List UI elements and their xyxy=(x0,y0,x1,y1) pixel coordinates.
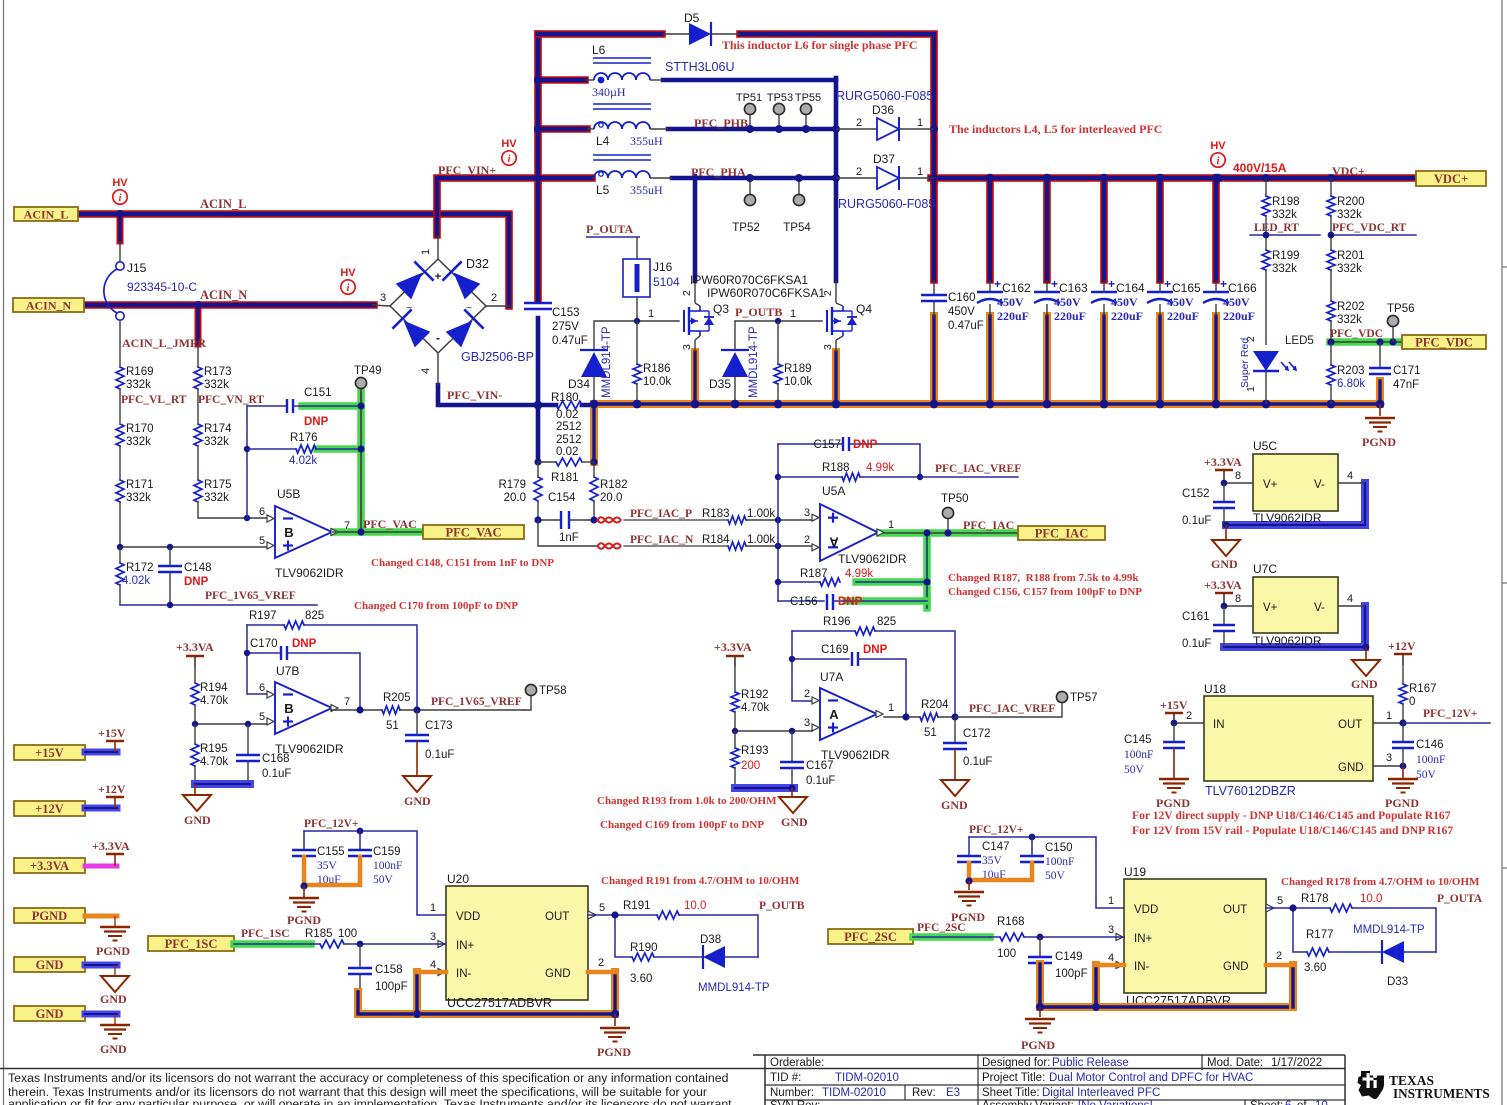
svg-text:OUT: OUT xyxy=(1223,904,1247,916)
svg-text:R195: R195 xyxy=(200,743,228,755)
svg-text:INSTRUMENTS: INSTRUMENTS xyxy=(1393,1086,1490,1101)
svg-text:8: 8 xyxy=(1235,593,1241,605)
resistor R171 xyxy=(116,480,124,502)
svg-text:R189: R189 xyxy=(784,363,812,375)
svg-text:R204: R204 xyxy=(921,699,949,711)
svg-text:200: 200 xyxy=(741,760,760,772)
svg-text:PGND: PGND xyxy=(96,944,130,958)
wire C153 column lower xyxy=(536,318,541,407)
svg-text:IN-: IN- xyxy=(456,968,472,980)
twisted pair PFC_IAC_P xyxy=(597,517,621,522)
sheet border right xyxy=(1501,0,1503,1105)
svg-text:GND: GND xyxy=(184,813,211,827)
svg-text:GND: GND xyxy=(1338,762,1364,774)
svg-text:PFC_12V+: PFC_12V+ xyxy=(1423,708,1477,720)
diode D5 xyxy=(662,33,689,35)
svg-text:PFC_IAC_N: PFC_IAC_N xyxy=(630,534,694,546)
svg-text:4: 4 xyxy=(430,959,436,971)
svg-text:0.1uF: 0.1uF xyxy=(262,768,291,780)
svg-text:220uF: 220uF xyxy=(1054,309,1086,323)
svg-text:PFC_IAC_VREF: PFC_IAC_VREF xyxy=(969,703,1055,715)
svg-text:MMDL914-TP: MMDL914-TP xyxy=(698,982,770,994)
wire PFC_VIN+ rail xyxy=(437,178,592,235)
svg-text:PFC_IAC: PFC_IAC xyxy=(963,518,1014,532)
svg-text:GND: GND xyxy=(545,968,571,980)
svg-text:Changed C148, C151 from 1nF to: Changed C148, C151 from 1nF to DNP xyxy=(371,557,554,569)
svg-text:Sheet Title:: Sheet Title: xyxy=(982,1087,1040,1099)
svg-text:50V: 50V xyxy=(1045,870,1066,882)
svg-text:275V: 275V xyxy=(552,321,579,333)
svg-text:C155: C155 xyxy=(317,846,345,858)
svg-text:MMDL914-TP: MMDL914-TP xyxy=(601,326,613,398)
svg-text:U7A: U7A xyxy=(820,670,843,684)
svg-text:100: 100 xyxy=(338,928,357,940)
testpoint TP53 xyxy=(778,115,780,129)
wire PFC_12V+ U20 xyxy=(304,831,446,915)
svg-text:TP51: TP51 xyxy=(736,92,762,104)
svg-text:R172: R172 xyxy=(126,562,154,574)
svg-text:PFC_IAC: PFC_IAC xyxy=(1035,527,1088,541)
svg-text:1/17/2022: 1/17/2022 xyxy=(1271,1057,1322,1069)
wire U5B plus input xyxy=(120,546,267,548)
svg-text:DNP: DNP xyxy=(838,596,863,608)
svg-text:MMDL914-TP: MMDL914-TP xyxy=(1353,924,1425,936)
svg-text:2: 2 xyxy=(804,534,810,546)
svg-text:C165: C165 xyxy=(1172,281,1201,295)
svg-text:D37: D37 xyxy=(873,152,895,166)
svg-text:C145: C145 xyxy=(1124,734,1152,746)
svg-text:PFC_VDC_RT: PFC_VDC_RT xyxy=(1332,222,1407,234)
wire orange U20 gnd bus xyxy=(358,992,615,1014)
svg-text:100: 100 xyxy=(997,948,1016,960)
svg-text:ACIN_L_JMPR: ACIN_L_JMPR xyxy=(122,336,206,350)
svg-text:PFC_VAC: PFC_VAC xyxy=(363,517,417,531)
svg-text:450V: 450V xyxy=(1054,295,1081,309)
svg-text:E3: E3 xyxy=(946,1087,960,1099)
svg-text:PFC_VIN+: PFC_VIN+ xyxy=(438,163,496,177)
junctions top buses xyxy=(534,76,542,84)
svg-text:220uF: 220uF xyxy=(1111,309,1143,323)
svg-text:LED_RT: LED_RT xyxy=(1254,222,1299,234)
svg-text:U5C: U5C xyxy=(1253,439,1277,453)
svg-text:C154: C154 xyxy=(548,492,576,504)
wire U5A feedback vertical xyxy=(777,444,779,601)
svg-text:HV: HV xyxy=(1210,140,1226,152)
svg-text:2: 2 xyxy=(822,290,834,296)
capacitor C170 loop xyxy=(247,652,280,654)
svg-text:~: ~ xyxy=(406,303,412,314)
svg-text:+: + xyxy=(994,277,1001,291)
ground GND C172 xyxy=(941,780,969,796)
svg-text:Super Red: Super Red xyxy=(1239,338,1251,388)
capacitor C146 xyxy=(1402,723,1404,742)
svg-text:Changed R178 from 4.7/OHM to 1: Changed R178 from 4.7/OHM to 10/OHM xyxy=(1281,876,1480,888)
port +3.3VA xyxy=(14,858,85,873)
svg-text:10: 10 xyxy=(1315,1100,1328,1105)
svg-text:TIDM-02010: TIDM-02010 xyxy=(835,1072,899,1084)
wire top rail after D5 to VDC corner xyxy=(740,34,934,181)
wire PFC_1V65_VREF stub xyxy=(120,604,317,606)
svg-text:TP57: TP57 xyxy=(1070,692,1098,704)
svg-text:Changed R187, R188 from 7.5k: Changed R187, R188 from 7.5k to 4.99k xyxy=(948,572,1139,584)
svg-text:R198: R198 xyxy=(1272,196,1300,208)
wire Q4 gate row xyxy=(735,320,822,322)
svg-text:50V: 50V xyxy=(1124,764,1145,776)
svg-text:C150: C150 xyxy=(1045,842,1073,854)
svg-text:IPW60R070C6FKSA1: IPW60R070C6FKSA1 xyxy=(690,273,808,287)
op-amp U7A xyxy=(820,688,877,740)
svg-text:DNP: DNP xyxy=(863,644,888,656)
svg-text:2: 2 xyxy=(856,166,862,178)
svg-text:L5: L5 xyxy=(596,183,610,197)
resistor R190 xyxy=(632,953,654,961)
svg-text:R188: R188 xyxy=(822,462,850,474)
wire L6 feed stub xyxy=(538,76,585,84)
svg-text:20.0: 20.0 xyxy=(600,492,622,504)
svg-text:R176: R176 xyxy=(290,432,318,444)
svg-text:1: 1 xyxy=(648,308,654,320)
svg-text:D33: D33 xyxy=(1387,976,1408,988)
svg-text:C146: C146 xyxy=(1416,739,1444,751)
svg-text:Changed C170 from 100pF to DNP: Changed C170 from 100pF to DNP xyxy=(354,600,518,612)
svg-text:+3.3VA: +3.3VA xyxy=(1204,455,1242,469)
diode D38 xyxy=(702,945,704,969)
svg-text:332k: 332k xyxy=(204,379,229,391)
wire cap bank columns red xyxy=(930,178,938,280)
svg-text:1: 1 xyxy=(917,166,923,178)
junctions power bus xyxy=(590,400,599,409)
svg-text:R183: R183 xyxy=(702,508,730,520)
svg-text:4.70k: 4.70k xyxy=(200,756,228,768)
svg-text:100nF: 100nF xyxy=(1124,749,1153,761)
ground GND U7A xyxy=(791,788,793,797)
svg-text:Public Release: Public Release xyxy=(1052,1057,1129,1069)
svg-text:332k: 332k xyxy=(1337,314,1362,326)
resistor R195 xyxy=(191,744,199,766)
svg-text:Changed R191 from 4.7/OHM to 1: Changed R191 from 4.7/OHM to 10/OHM xyxy=(601,875,800,887)
svg-text:HV: HV xyxy=(340,267,356,279)
svg-text:PGND: PGND xyxy=(32,909,67,923)
testpoint TP49 xyxy=(360,389,362,406)
svg-text:A: A xyxy=(829,707,839,722)
diode D34 xyxy=(593,321,595,350)
svg-text:GBJ2506-BP: GBJ2506-BP xyxy=(461,350,534,364)
svg-text:Changed C169 from 100pF to DNP: Changed C169 from 100pF to DNP xyxy=(600,819,764,831)
svg-text:51: 51 xyxy=(924,727,937,739)
svg-text:0.02: 0.02 xyxy=(556,409,578,421)
diode D33 xyxy=(1381,940,1383,964)
svg-text:100pF: 100pF xyxy=(375,981,408,993)
resistor R181 xyxy=(538,461,556,463)
svg-text:D34: D34 xyxy=(568,377,590,391)
svg-text:R167: R167 xyxy=(1409,683,1437,695)
svg-text:3: 3 xyxy=(430,931,436,943)
svg-text:2: 2 xyxy=(804,688,810,700)
svg-text:R190: R190 xyxy=(630,942,658,954)
svg-text:PFC_1SC: PFC_1SC xyxy=(241,928,290,940)
testpoint TP52 xyxy=(749,178,751,194)
svg-text:MMDL914-TP: MMDL914-TP xyxy=(748,326,760,398)
svg-text:C163: C163 xyxy=(1059,281,1088,295)
wire U18 out xyxy=(1373,722,1403,724)
svg-text:3: 3 xyxy=(681,344,693,350)
jumper J15 xyxy=(119,241,121,262)
svg-text:35V: 35V xyxy=(982,855,1003,867)
ground GND U7C xyxy=(1365,647,1367,660)
svg-text:For 12V from 15V rail - Popula: For 12V from 15V rail - Populate U18/C14… xyxy=(1132,824,1453,837)
svg-text:PFC_1SC: PFC_1SC xyxy=(165,937,218,951)
svg-text:0: 0 xyxy=(1409,696,1415,708)
svg-text:B: B xyxy=(284,525,293,540)
wire C151 R176 vertical xyxy=(246,406,248,518)
resistor R169 xyxy=(116,367,124,389)
svg-text:GND: GND xyxy=(941,798,968,812)
svg-text:GND: GND xyxy=(36,958,64,972)
svg-text:IN-: IN- xyxy=(1134,961,1150,973)
label PFC_IAC_VREF xyxy=(920,476,1018,478)
svg-text:For 12V direct supply - DNP U1: For 12V direct supply - DNP U18/C146/C14… xyxy=(1132,809,1451,822)
svg-text:TP54: TP54 xyxy=(783,222,811,234)
resistor R176 xyxy=(247,448,296,450)
bridge rectifier D32 xyxy=(390,259,486,353)
svg-text:100pF: 100pF xyxy=(1055,968,1088,980)
wire C171 column orange xyxy=(1376,381,1384,404)
wire PFC_PHB bus xyxy=(668,127,836,132)
svg-text:VDD: VDD xyxy=(1134,904,1158,916)
svg-text:400V/15A: 400V/15A xyxy=(1233,161,1287,175)
svg-text:2: 2 xyxy=(1276,950,1282,962)
svg-text:C159: C159 xyxy=(373,846,401,858)
svg-text:-: - xyxy=(436,331,440,345)
testpoint TP58 xyxy=(524,696,531,710)
svg-text:IN+: IN+ xyxy=(1134,933,1153,945)
svg-text:2: 2 xyxy=(598,957,604,969)
resistor R170 xyxy=(116,424,124,446)
svg-text:J16: J16 xyxy=(653,260,673,274)
svg-text:Q4: Q4 xyxy=(856,302,872,316)
svg-text:+15V: +15V xyxy=(35,746,64,760)
svg-text:PFC_12V+: PFC_12V+ xyxy=(969,824,1023,836)
svg-text:R193: R193 xyxy=(741,745,769,757)
svg-text:GND: GND xyxy=(404,794,431,808)
svg-text:R196: R196 xyxy=(823,616,851,628)
svg-text:1: 1 xyxy=(917,117,923,129)
svg-text:6: 6 xyxy=(259,682,265,694)
resistor R173 xyxy=(197,344,199,367)
svg-text:100nF: 100nF xyxy=(373,860,402,872)
svg-text:50V: 50V xyxy=(373,874,394,886)
svg-text:332k: 332k xyxy=(204,436,229,448)
svg-text:1: 1 xyxy=(430,902,436,914)
svg-text:4.99k: 4.99k xyxy=(866,462,894,474)
svg-text:V+: V+ xyxy=(1263,602,1278,614)
svg-text:220uF: 220uF xyxy=(1167,309,1199,323)
svg-text:3: 3 xyxy=(804,717,810,729)
svg-text:4.70k: 4.70k xyxy=(741,702,769,714)
svg-text:R184: R184 xyxy=(702,534,730,546)
svg-text:10.0k: 10.0k xyxy=(784,376,812,388)
svg-text:0.47uF: 0.47uF xyxy=(948,320,984,332)
svg-text:+: + xyxy=(1108,277,1115,291)
svg-text:R182: R182 xyxy=(600,479,628,491)
svg-text:P_OUTB: P_OUTB xyxy=(735,305,782,319)
svg-text:+3.3VA: +3.3VA xyxy=(714,640,752,654)
svg-text:C153: C153 xyxy=(552,307,580,319)
svg-text:0.02: 0.02 xyxy=(556,446,578,458)
svg-text:0.47uF: 0.47uF xyxy=(552,335,588,347)
svg-text:R169: R169 xyxy=(126,366,154,378)
svg-text:450V: 450V xyxy=(997,295,1024,309)
svg-text:+: + xyxy=(435,271,441,283)
svg-text:3.60: 3.60 xyxy=(1304,962,1326,974)
wire ACIN_L bus xyxy=(78,214,509,306)
svg-text:C173: C173 xyxy=(425,720,453,732)
svg-text:GND: GND xyxy=(100,992,127,1006)
ground PGND U20 xyxy=(614,1014,616,1026)
resistor R188 xyxy=(778,476,842,478)
svg-text:332k: 332k xyxy=(1337,209,1362,221)
svg-text:2512: 2512 xyxy=(556,434,582,446)
capacitor C156 xyxy=(778,600,824,602)
svg-text:Number:: Number: xyxy=(770,1087,814,1099)
svg-text:U18: U18 xyxy=(1204,682,1226,696)
svg-text:4: 4 xyxy=(420,368,432,374)
op-amp U5B xyxy=(275,506,332,558)
svg-text:GND: GND xyxy=(100,1042,127,1056)
wire Q3 gate row xyxy=(594,320,679,322)
inductor L4 xyxy=(593,103,651,105)
svg-text:5: 5 xyxy=(1277,895,1283,907)
resistor R203 xyxy=(1330,342,1332,365)
svg-text:GND: GND xyxy=(1223,961,1249,973)
svg-text:P_OUTA: P_OUTA xyxy=(586,222,633,236)
svg-text:Orderable:: Orderable: xyxy=(770,1057,824,1069)
svg-text:R174: R174 xyxy=(204,423,232,435)
svg-text:+: + xyxy=(1220,277,1227,291)
wire sense vertical x594 orange xyxy=(590,405,598,462)
svg-text:R194: R194 xyxy=(200,682,228,694)
svg-text:PGND: PGND xyxy=(1021,1038,1055,1052)
svg-text:PFC_2SC: PFC_2SC xyxy=(917,922,966,934)
svg-text:TP50: TP50 xyxy=(941,493,969,505)
svg-text:PGND: PGND xyxy=(1156,796,1190,810)
svg-text:B: B xyxy=(284,701,293,716)
resistor R177 xyxy=(1307,948,1329,956)
svg-text:332k: 332k xyxy=(1272,209,1297,221)
svg-text:R199: R199 xyxy=(1272,250,1300,262)
capacitor C149 xyxy=(1039,937,1041,957)
capacitor C160 xyxy=(933,280,935,295)
svg-text:+15V: +15V xyxy=(98,726,126,740)
svg-text:D36: D36 xyxy=(872,103,894,117)
port ACIN_L xyxy=(14,207,78,221)
svg-text:3: 3 xyxy=(1386,752,1392,764)
wire ACIN_N bus xyxy=(83,301,374,309)
svg-text:application or fit for any par: application or fit for any particular pu… xyxy=(8,1097,732,1105)
twisted pair PFC_IAC_N xyxy=(597,543,621,548)
resistor R199 xyxy=(1262,250,1270,270)
svg-text:R180: R180 xyxy=(551,392,579,404)
svg-text:2: 2 xyxy=(681,290,693,296)
transistor Q4 xyxy=(835,281,837,303)
capacitor C147 xyxy=(968,837,970,856)
green glow PFC_VAC net xyxy=(302,402,361,410)
svg-text:6: 6 xyxy=(1285,1100,1291,1105)
svg-text:Project Title:: Project Title: xyxy=(982,1072,1045,1084)
capacitor C151 xyxy=(247,405,287,407)
svg-text:GND: GND xyxy=(36,1007,64,1021)
svg-text:R201: R201 xyxy=(1337,250,1365,262)
svg-text:825: 825 xyxy=(877,616,896,628)
svg-text:C172: C172 xyxy=(963,728,991,740)
svg-text:PGND: PGND xyxy=(1362,435,1396,449)
capacitor C159 xyxy=(359,831,361,850)
svg-text:PFC_2SC: PFC_2SC xyxy=(844,930,897,944)
svg-text:A: A xyxy=(829,535,839,550)
svg-text:332k: 332k xyxy=(126,436,151,448)
TI logo xyxy=(1358,1071,1385,1099)
svg-text:R173: R173 xyxy=(204,366,232,378)
wire U19 out net xyxy=(1266,907,1330,909)
svg-text:5: 5 xyxy=(259,711,265,723)
svg-text:C158: C158 xyxy=(375,964,403,976)
svg-text:C169: C169 xyxy=(821,644,849,656)
svg-text:2: 2 xyxy=(856,117,862,129)
resistor R167 xyxy=(1399,684,1407,704)
svg-text:RURG5060-F085: RURG5060-F085 xyxy=(836,89,933,103)
wire PFC_VIN- to sense xyxy=(582,403,595,408)
svg-text:+3.3VA: +3.3VA xyxy=(176,640,214,654)
fuse J16 xyxy=(636,237,638,259)
svg-text:0.1uF: 0.1uF xyxy=(1182,638,1211,650)
op-amp U5A xyxy=(820,504,878,561)
svg-text:R175: R175 xyxy=(204,479,232,491)
svg-text:V-: V- xyxy=(1314,602,1325,614)
capacitor C154 xyxy=(538,519,561,521)
wire ACIN_L_JMPR red stub xyxy=(195,305,202,344)
bridge pin stubs xyxy=(437,235,439,259)
svg-text:+12V: +12V xyxy=(1388,639,1416,653)
svg-text:10.0k: 10.0k xyxy=(643,376,671,388)
resistor R179 xyxy=(537,462,539,477)
svg-text:332k: 332k xyxy=(126,492,151,504)
label PFC_IAC_VREF U7A xyxy=(955,702,1062,717)
svg-text:OUT: OUT xyxy=(545,911,569,923)
svg-text:SVN Rev:: SVN Rev: xyxy=(770,1100,821,1105)
svg-text:2: 2 xyxy=(491,292,497,304)
svg-text:IN: IN xyxy=(1213,719,1225,731)
svg-text:GND: GND xyxy=(781,815,808,829)
svg-text:923345-10-C: 923345-10-C xyxy=(127,280,197,294)
ground PGND C171 xyxy=(1379,404,1381,416)
svg-text:TID #:: TID #: xyxy=(770,1072,801,1084)
junction dots input xyxy=(116,210,124,218)
svg-text:i: i xyxy=(119,193,122,204)
svg-text:3: 3 xyxy=(822,344,834,350)
svg-text:C160: C160 xyxy=(948,292,976,304)
wire Q3 source drop xyxy=(691,352,699,404)
svg-text:LED5: LED5 xyxy=(1285,335,1314,347)
svg-text:PGND: PGND xyxy=(287,913,321,927)
svg-text:2512: 2512 xyxy=(556,421,582,433)
svg-text:R181: R181 xyxy=(551,472,579,484)
wire switch node vertical x836 xyxy=(834,78,839,281)
svg-text:220uF: 220uF xyxy=(997,309,1029,323)
capacitor C168 xyxy=(247,724,249,755)
wire U18 gnd pin xyxy=(1373,765,1403,767)
svg-text:2: 2 xyxy=(1186,710,1192,722)
svg-text:PFC_VIN-: PFC_VIN- xyxy=(447,388,502,402)
